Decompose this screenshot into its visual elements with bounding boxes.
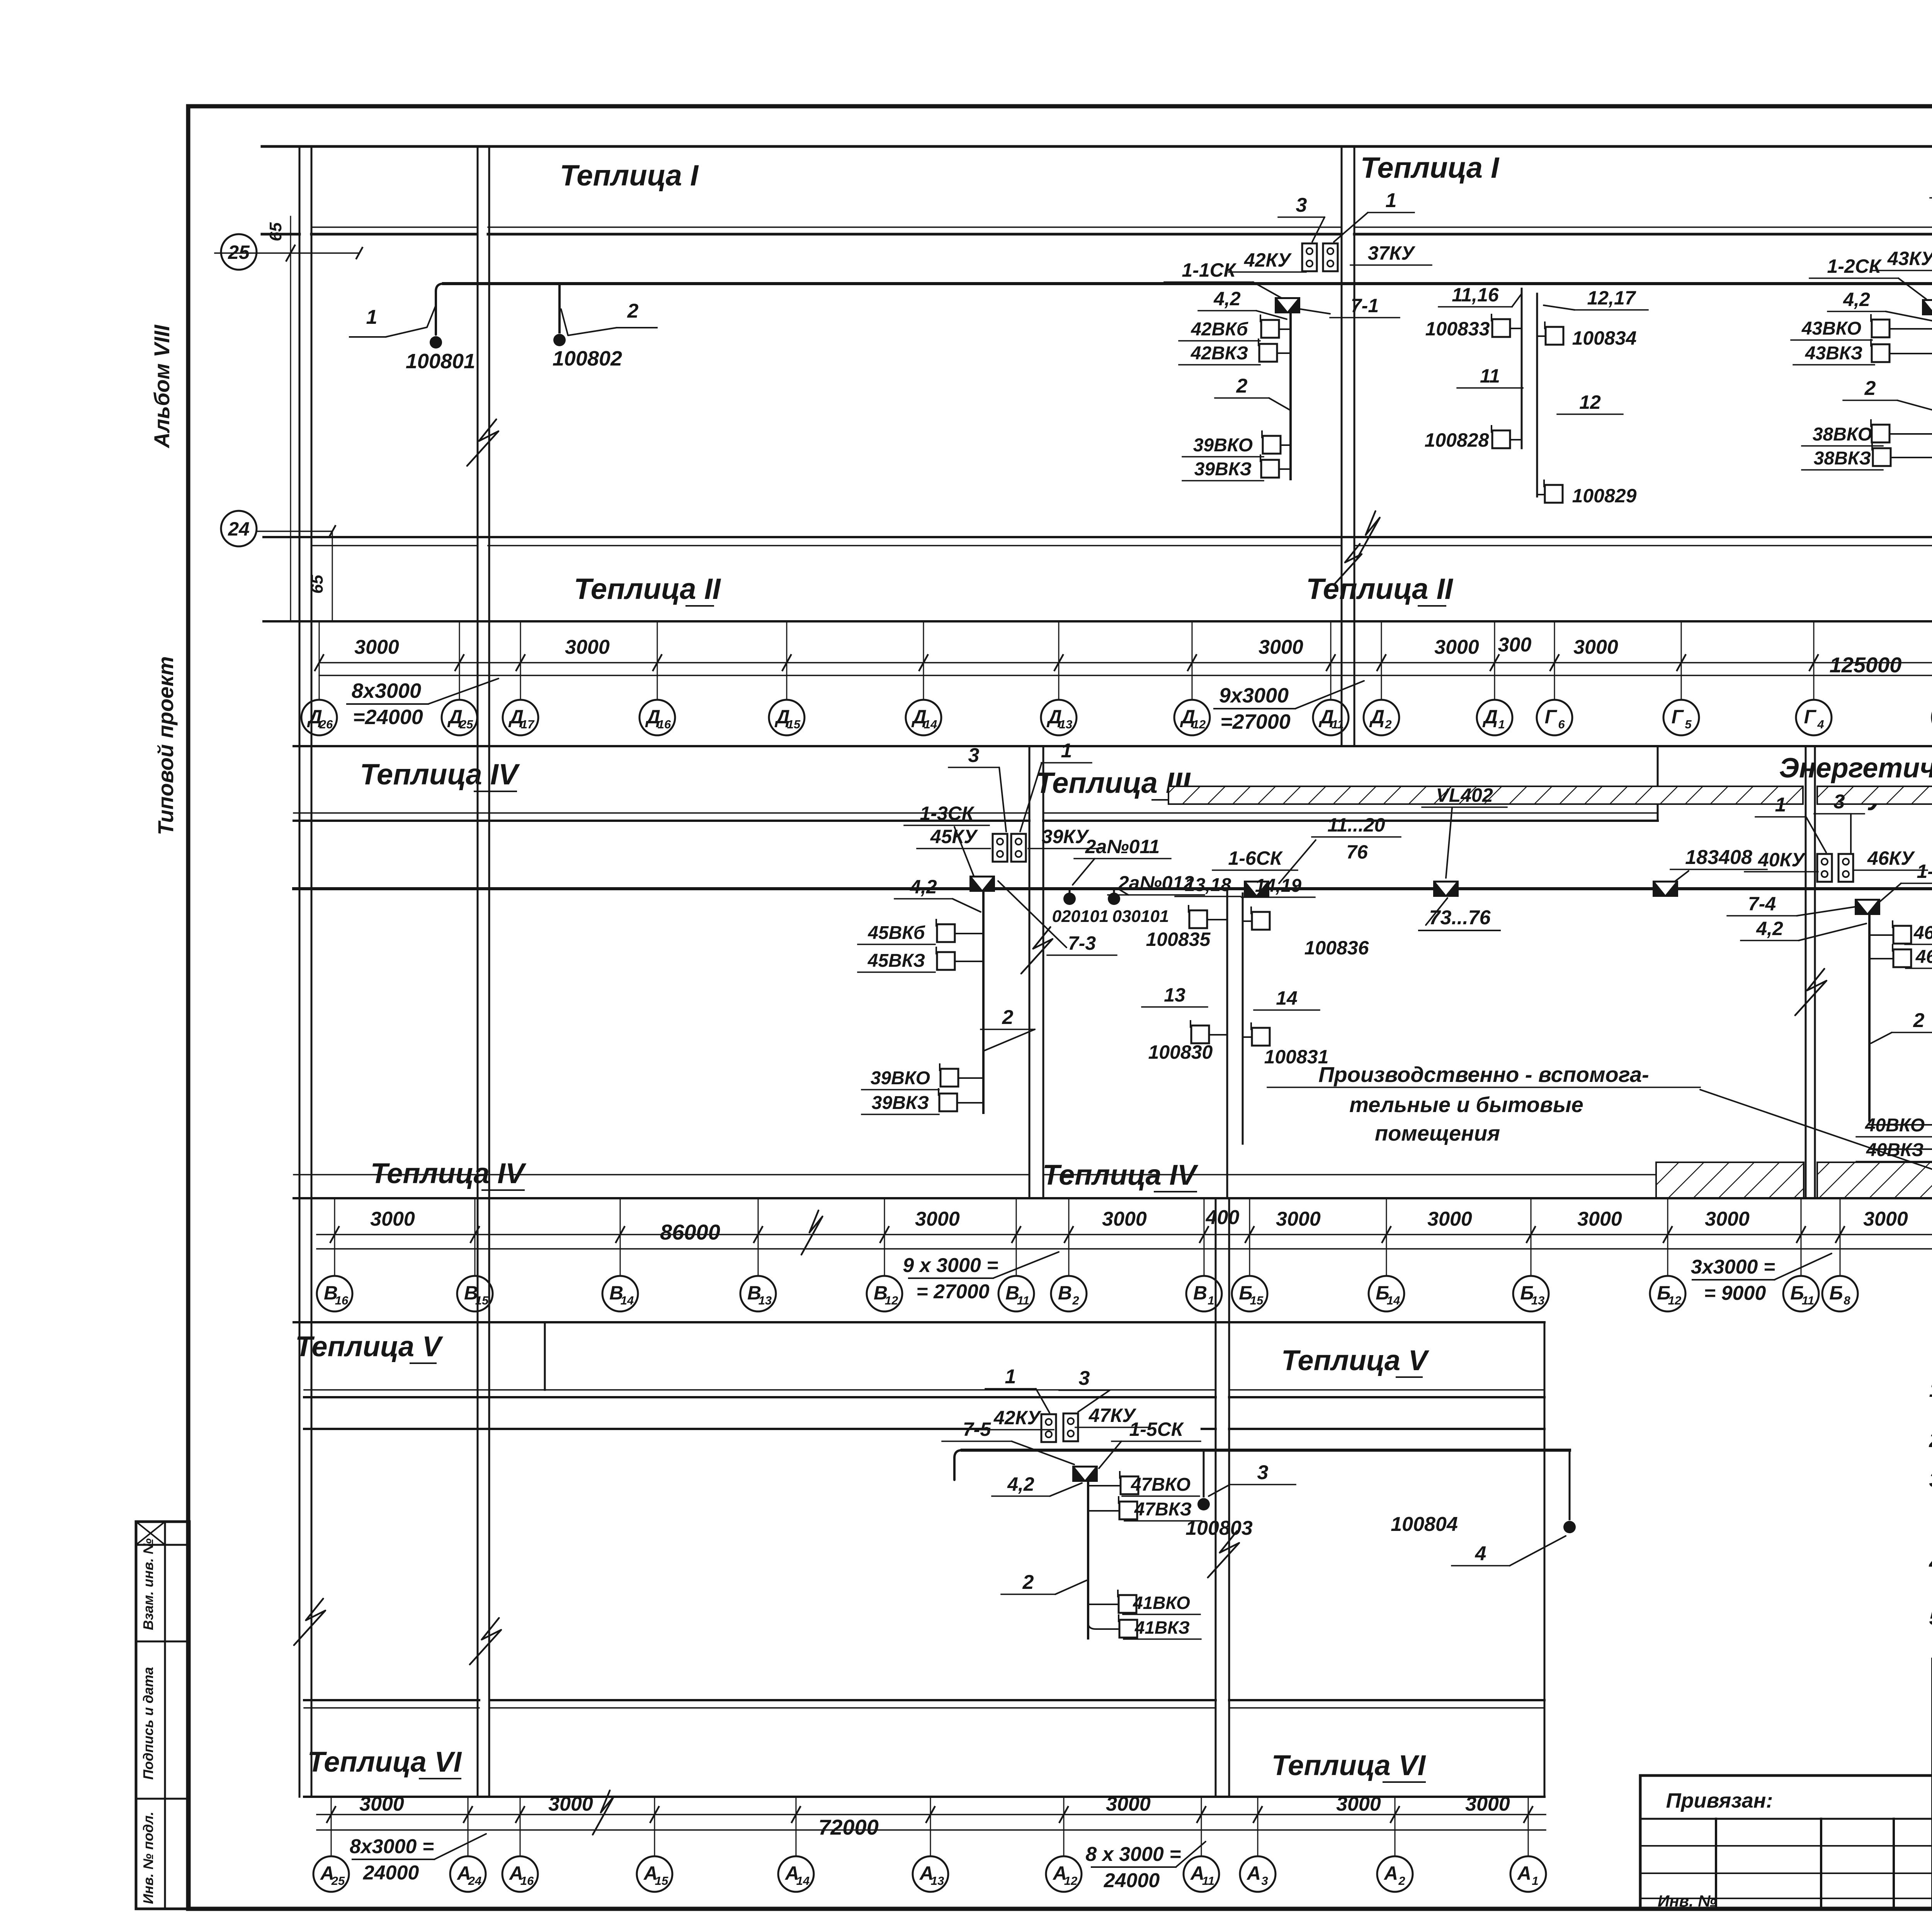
svg-text:43КУ: 43КУ [1887, 248, 1932, 269]
svg-text:2а№012: 2а№012 [1118, 872, 1194, 894]
svg-text:1-2СК: 1-2СК [1827, 255, 1882, 277]
svg-text:2.: 2. [1929, 1429, 1932, 1452]
svg-text:8х3000 =: 8х3000 = [350, 1835, 434, 1858]
svg-text:11...20: 11...20 [1327, 814, 1385, 836]
svg-text:3000: 3000 [1276, 1208, 1321, 1230]
svg-text:25: 25 [459, 718, 473, 731]
svg-text:Теплица IV: Теплица IV [371, 1157, 527, 1189]
svg-text:Альбом VIII: Альбом VIII [150, 324, 174, 449]
svg-text:А: А [1383, 1862, 1398, 1884]
svg-text:4,2: 4,2 [1843, 289, 1870, 310]
svg-text:3000: 3000 [1577, 1208, 1622, 1230]
svg-text:100804: 100804 [1391, 1513, 1458, 1536]
svg-text:1: 1 [1498, 718, 1505, 731]
svg-text:3000: 3000 [548, 1793, 593, 1815]
svg-text:7-1: 7-1 [1351, 295, 1379, 316]
svg-text:030101: 030101 [1112, 907, 1169, 926]
svg-text:7-4: 7-4 [1748, 893, 1776, 915]
svg-text:Инв. № подл.: Инв. № подл. [140, 1811, 156, 1904]
svg-text:100835: 100835 [1146, 929, 1211, 950]
svg-text:3: 3 [1261, 1874, 1268, 1888]
svg-text:39ВКО: 39ВКО [1193, 435, 1253, 456]
svg-text:3000: 3000 [1259, 636, 1303, 658]
svg-text:9 х 3000 =: 9 х 3000 = [903, 1254, 998, 1277]
svg-text:13: 13 [931, 1874, 944, 1888]
svg-text:100803: 100803 [1185, 1517, 1253, 1539]
svg-text:3000: 3000 [354, 636, 399, 658]
svg-text:Г: Г [1804, 706, 1817, 728]
svg-text:5: 5 [1685, 718, 1692, 731]
svg-text:15: 15 [475, 1294, 489, 1307]
svg-text:3000: 3000 [1336, 1793, 1381, 1815]
svg-text:13: 13 [1531, 1294, 1544, 1307]
svg-text:4: 4 [1475, 1543, 1486, 1565]
svg-text:16: 16 [335, 1294, 349, 1307]
svg-text:3000: 3000 [565, 636, 610, 658]
svg-text:7-5: 7-5 [963, 1418, 991, 1440]
svg-text:11: 11 [1017, 1294, 1029, 1307]
svg-text:Г: Г [1545, 706, 1558, 728]
svg-text:1: 1 [1061, 740, 1072, 762]
svg-text:13: 13 [1059, 718, 1072, 731]
svg-text:3000: 3000 [1427, 1208, 1472, 1230]
svg-text:В: В [1193, 1282, 1207, 1304]
svg-text:125000: 125000 [1830, 653, 1902, 677]
svg-text:3000: 3000 [1465, 1793, 1510, 1815]
svg-text:Теплица I: Теплица I [560, 159, 699, 192]
svg-text:39ВКЗ: 39ВКЗ [1194, 459, 1252, 480]
svg-text:46КУ: 46КУ [1867, 847, 1915, 869]
svg-text:100802: 100802 [553, 347, 622, 370]
svg-text:24: 24 [468, 1874, 481, 1888]
svg-text:86000: 86000 [660, 1220, 720, 1244]
svg-text:Д: Д [1369, 706, 1384, 728]
svg-text:65: 65 [308, 575, 327, 594]
svg-text:43ВКЗ: 43ВКЗ [1805, 343, 1862, 364]
svg-text:42ВКЗ: 42ВКЗ [1190, 343, 1248, 364]
svg-text:Теплица VI: Теплица VI [1272, 1749, 1426, 1781]
svg-text:4,2: 4,2 [1756, 918, 1783, 939]
svg-text:= 9000: = 9000 [1704, 1282, 1766, 1304]
svg-text:14,19: 14,19 [1255, 876, 1301, 896]
svg-text:16: 16 [520, 1874, 534, 1888]
svg-text:14: 14 [1387, 1294, 1400, 1307]
svg-text:40КУ: 40КУ [1758, 849, 1806, 871]
svg-text:помещения: помещения [1375, 1121, 1500, 1145]
svg-text:VL402: VL402 [1436, 784, 1493, 806]
svg-text:11: 11 [1480, 365, 1500, 387]
svg-text:Теплица II: Теплица II [1306, 573, 1454, 605]
svg-text:300: 300 [1498, 634, 1532, 656]
svg-text:17: 17 [521, 718, 535, 731]
svg-text:3000: 3000 [915, 1208, 960, 1230]
svg-text:24000: 24000 [1104, 1869, 1160, 1892]
svg-text:8 х 3000 =: 8 х 3000 = [1085, 1843, 1181, 1866]
svg-text:14: 14 [621, 1294, 634, 1307]
svg-text:Б: Б [1829, 1282, 1843, 1304]
svg-text:14: 14 [924, 718, 937, 731]
svg-text:4,2: 4,2 [1213, 288, 1241, 310]
svg-text:Типовой проект: Типовой проект [153, 656, 178, 835]
svg-text:2: 2 [627, 300, 639, 322]
svg-text:Теплица II: Теплица II [574, 573, 721, 605]
svg-text:12: 12 [1064, 1874, 1077, 1888]
svg-text:Производственно - вспомога-: Производственно - вспомога- [1318, 1062, 1649, 1087]
svg-text:Теплица III: Теплица III [1036, 767, 1191, 799]
svg-text:4,2: 4,2 [1007, 1473, 1034, 1495]
svg-text:3: 3 [968, 744, 980, 767]
svg-text:45КУ: 45КУ [930, 826, 978, 847]
svg-text:37КУ: 37КУ [1368, 242, 1416, 264]
svg-text:Г: Г [1672, 706, 1684, 728]
svg-text:1: 1 [1775, 794, 1786, 816]
svg-text:12: 12 [1192, 718, 1206, 731]
svg-text:47ВКО: 47ВКО [1131, 1475, 1190, 1495]
svg-text:4,2: 4,2 [910, 876, 937, 898]
svg-text:25: 25 [331, 1874, 345, 1888]
svg-text:3: 3 [1296, 194, 1307, 216]
svg-text:Взам. инв. №: Взам. инв. № [140, 1538, 156, 1630]
svg-text:8: 8 [1844, 1294, 1850, 1307]
svg-text:=24000: =24000 [353, 706, 423, 729]
svg-text:А: А [1517, 1862, 1531, 1884]
svg-text:7-3: 7-3 [1068, 932, 1096, 954]
svg-text:Теплица IV: Теплица IV [360, 758, 520, 791]
svg-text:14: 14 [1276, 987, 1298, 1009]
svg-text:13,18: 13,18 [1185, 875, 1231, 895]
svg-text:3000: 3000 [1705, 1208, 1750, 1230]
svg-text:38ВКО: 38ВКО [1813, 424, 1872, 445]
svg-text:3.: 3. [1929, 1468, 1932, 1492]
svg-text:3000: 3000 [1434, 636, 1479, 658]
svg-text:= 27000: = 27000 [916, 1281, 989, 1303]
svg-text:3: 3 [1257, 1461, 1269, 1484]
svg-text:46ВКО: 46ВКО [1913, 923, 1932, 943]
svg-text:100801: 100801 [406, 350, 475, 373]
svg-text:76: 76 [1346, 841, 1368, 863]
svg-text:2: 2 [1022, 1571, 1034, 1594]
svg-text:Привязан:: Привязан: [1666, 1789, 1773, 1812]
svg-text:1: 1 [1005, 1366, 1016, 1388]
svg-text:тельные и бытовые: тельные и бытовые [1349, 1092, 1583, 1117]
svg-text:15: 15 [787, 718, 801, 731]
svg-text:39ВКЗ: 39ВКЗ [872, 1093, 929, 1113]
svg-text:9х3000: 9х3000 [1219, 684, 1289, 707]
svg-text:12: 12 [1579, 391, 1601, 413]
svg-text:Д: Д [1482, 706, 1498, 728]
svg-text:2: 2 [1398, 1874, 1405, 1888]
svg-text:183408: 183408 [1685, 846, 1752, 869]
svg-text:15: 15 [1250, 1294, 1264, 1307]
svg-text:11: 11 [1802, 1294, 1814, 1307]
svg-text:100836: 100836 [1304, 937, 1369, 959]
svg-text:2: 2 [1072, 1294, 1079, 1307]
svg-text:Подпись и дата: Подпись и дата [140, 1667, 156, 1780]
svg-text:В: В [1058, 1282, 1072, 1304]
svg-text:2: 2 [1913, 1009, 1925, 1032]
svg-text:3х3000 =: 3х3000 = [1691, 1256, 1775, 1278]
svg-text:42КУ: 42КУ [1244, 249, 1292, 271]
svg-text:65: 65 [266, 222, 285, 241]
svg-text:3: 3 [1079, 1367, 1090, 1389]
svg-text:400: 400 [1206, 1206, 1240, 1229]
svg-text:1.: 1. [1929, 1378, 1932, 1401]
svg-text:3: 3 [1834, 791, 1845, 813]
svg-text:25: 25 [228, 241, 250, 263]
svg-text:47ВКЗ: 47ВКЗ [1134, 1499, 1192, 1520]
svg-text:5.: 5. [1929, 1606, 1932, 1629]
svg-text:12,17: 12,17 [1587, 287, 1636, 309]
svg-text:3000: 3000 [1106, 1793, 1151, 1815]
svg-text:14: 14 [796, 1874, 810, 1888]
svg-text:2: 2 [1002, 1006, 1014, 1029]
svg-text:39ВКО: 39ВКО [871, 1068, 930, 1088]
svg-text:Инв. №: Инв. № [1658, 1892, 1716, 1910]
svg-text:=27000: =27000 [1220, 710, 1291, 733]
svg-text:1: 1 [366, 306, 378, 328]
svg-text:1-5СК: 1-5СК [1129, 1418, 1184, 1440]
svg-text:15: 15 [655, 1874, 668, 1888]
svg-text:16: 16 [658, 718, 671, 731]
svg-text:26: 26 [319, 718, 333, 731]
svg-text:100828: 100828 [1425, 429, 1489, 451]
svg-text:2: 2 [1236, 375, 1248, 397]
svg-text:46ВКЗ: 46ВКЗ [1915, 947, 1932, 967]
svg-text:Энергетический: Энергетический [1779, 753, 1932, 784]
svg-text:Теплица V: Теплица V [1281, 1344, 1430, 1376]
svg-text:2а№011: 2а№011 [1085, 836, 1160, 857]
svg-text:45ВКб: 45ВКб [867, 923, 925, 943]
svg-text:12: 12 [885, 1294, 898, 1307]
svg-text:11: 11 [1202, 1874, 1214, 1888]
svg-text:4.: 4. [1929, 1551, 1932, 1574]
svg-text:2: 2 [1864, 377, 1876, 400]
svg-text:1: 1 [1386, 189, 1397, 212]
svg-text:12: 12 [1668, 1294, 1681, 1307]
svg-text:1-3СК: 1-3СК [920, 803, 975, 824]
svg-text:Теплица V: Теплица V [295, 1330, 444, 1362]
svg-text:100833: 100833 [1425, 318, 1490, 340]
svg-text:3000: 3000 [1573, 636, 1618, 658]
svg-text:3000: 3000 [1102, 1208, 1147, 1230]
svg-text:3000: 3000 [359, 1793, 404, 1815]
svg-text:42ВКб: 42ВКб [1190, 319, 1248, 340]
svg-text:41ВКО: 41ВКО [1133, 1593, 1190, 1613]
svg-text:1: 1 [1532, 1874, 1538, 1888]
svg-text:1-1СК: 1-1СК [1182, 259, 1236, 281]
svg-text:11,16: 11,16 [1452, 284, 1499, 306]
svg-text:3000: 3000 [1863, 1208, 1908, 1230]
svg-text:11: 11 [1332, 718, 1344, 731]
svg-text:Теплица I: Теплица I [1361, 151, 1500, 184]
svg-text:1: 1 [1207, 1294, 1214, 1307]
svg-text:1-4СК: 1-4СК [1917, 861, 1932, 882]
svg-text:72000: 72000 [818, 1815, 879, 1839]
svg-text:4: 4 [1817, 718, 1824, 731]
svg-text:А: А [1246, 1862, 1261, 1884]
svg-text:8х3000: 8х3000 [352, 679, 421, 702]
svg-text:6: 6 [1558, 718, 1565, 731]
svg-text:13: 13 [759, 1294, 772, 1307]
svg-text:38ВКЗ: 38ВКЗ [1814, 448, 1871, 469]
svg-text:24000: 24000 [363, 1862, 419, 1884]
svg-text:45ВКЗ: 45ВКЗ [867, 951, 925, 971]
svg-text:43ВКО: 43ВКО [1801, 318, 1861, 339]
svg-text:100834: 100834 [1572, 327, 1637, 349]
svg-text:3000: 3000 [370, 1208, 415, 1230]
svg-text:100829: 100829 [1572, 485, 1637, 507]
svg-text:1-6СК: 1-6СК [1228, 847, 1283, 869]
svg-text:2: 2 [1384, 718, 1391, 731]
svg-text:13: 13 [1164, 984, 1185, 1006]
svg-text:39КУ: 39КУ [1042, 826, 1090, 847]
svg-text:Теплица VI: Теплица VI [308, 1746, 462, 1778]
svg-text:100830: 100830 [1148, 1041, 1213, 1063]
svg-text:41ВКЗ: 41ВКЗ [1134, 1617, 1190, 1638]
svg-text:24: 24 [228, 518, 250, 540]
svg-text:42КУ: 42КУ [993, 1407, 1042, 1429]
svg-text:020101: 020101 [1052, 907, 1109, 926]
